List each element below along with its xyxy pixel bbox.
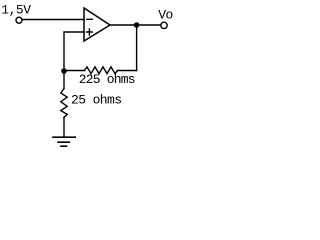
input terminal 1,5V [16, 17, 22, 23]
svg-text:25 ohms: 25 ohms [71, 93, 121, 108]
output terminal Vo [161, 22, 167, 28]
wire resistor 25 to ground [63, 117, 65, 137]
svg-text:1,5V: 1,5V [1, 2, 31, 17]
node feedback junction [61, 68, 67, 74]
node output junction [134, 22, 140, 28]
svg-text:225 ohms: 225 ohms [79, 72, 135, 87]
resistor 225 ohms [85, 67, 118, 74]
op-amp U1 [84, 8, 110, 41]
wire feedback right segment [118, 70, 137, 72]
wire op-amp noninverting input [64, 32, 84, 71]
op-amp minus pin mark [87, 18, 92, 20]
wire feedback left segment [64, 70, 85, 72]
svg-text:Vo: Vo [158, 8, 173, 23]
wire op-amp output to Vo terminal [110, 24, 161, 26]
wire input terminal to op-amp inverting input [22, 19, 84, 21]
wire feedback riser from output node [136, 25, 138, 71]
ground [53, 137, 75, 146]
resistor 25 ohms [61, 89, 67, 118]
op-amp plus pin mark [87, 29, 93, 35]
wire junction to resistor 25 [63, 71, 65, 89]
